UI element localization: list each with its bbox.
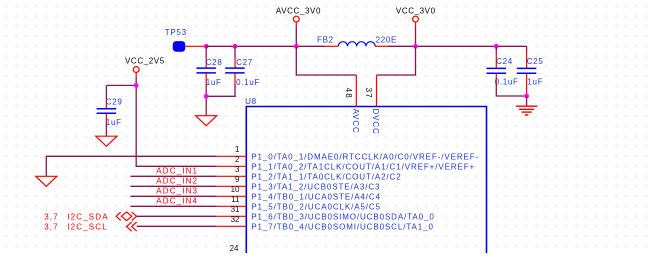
- svg-text:48: 48: [344, 88, 353, 99]
- svg-text:ADC_IN4: ADC_IN4: [156, 197, 198, 206]
- junction C24/C25 bottom: [524, 94, 529, 99]
- svg-text:U8: U8: [245, 97, 257, 106]
- pin 31: [217, 215, 247, 217]
- svg-text:3,7: 3,7: [44, 213, 59, 222]
- pin 1: [217, 155, 247, 157]
- svg-text:AVCC_3V0: AVCC_3V0: [276, 7, 321, 16]
- capacitor C28: [196, 46, 216, 115]
- pin 3: [217, 175, 247, 177]
- svg-text:I2C_SCL: I2C_SCL: [67, 223, 108, 232]
- svg-text:37: 37: [364, 88, 373, 99]
- junction VCC_2V5/C29: [134, 83, 139, 88]
- svg-text:24: 24: [230, 244, 239, 253]
- svg-text:220E: 220E: [376, 36, 397, 45]
- svg-text:P1_2/TA1_1/TA0CLK/COUT/A2/C2: P1_2/TA1_1/TA0CLK/COUT/A2/C2: [251, 173, 401, 182]
- ground under C29: [96, 136, 117, 146]
- capacitor C25: [517, 46, 537, 96]
- power flag VCC_3V0: [396, 7, 436, 27]
- ground under pin 1 wire: [36, 176, 57, 186]
- svg-text:P1_6/TB0_3/UCB0SIMO/UCB0SDA/TA: P1_6/TB0_3/UCB0SIMO/UCB0SDA/TA0_0: [251, 213, 434, 222]
- pin 9: [217, 185, 247, 187]
- wire C29 branch: [106, 84, 136, 86]
- svg-text:1uF: 1uF: [206, 78, 222, 87]
- svg-text:P1_7/TB0_4/UCB0SOMI/UCB0SCL/TA: P1_7/TB0_4/UCB0SOMI/UCB0SCL/TA1_0: [251, 223, 434, 232]
- wire rail right segment: [388, 45, 527, 47]
- junction C28/C27 bottom: [204, 94, 209, 99]
- wire AVCC_3V0 drop: [295, 27, 297, 46]
- earth ground under C24/C25: [516, 106, 537, 115]
- svg-text:C27: C27: [236, 58, 253, 67]
- wire VCC to pin 37: [377, 46, 416, 75]
- svg-text:0.1uF: 0.1uF: [236, 78, 260, 87]
- svg-text:0.1uF: 0.1uF: [495, 78, 519, 87]
- ground under C28/C27: [196, 116, 217, 126]
- svg-text:P1_3/TA1_2/UCB0STE/A3/C3: P1_3/TA1_2/UCB0STE/A3/C3: [251, 183, 380, 192]
- power flag AVCC_3V0: [276, 7, 321, 27]
- svg-text:VCC_2V5: VCC_2V5: [125, 56, 165, 65]
- pin 32: [217, 225, 247, 227]
- svg-text:32: 32: [231, 215, 240, 224]
- wire I2C_SCL to pin 32: [137, 225, 217, 227]
- svg-text:ADC_IN3: ADC_IN3: [156, 187, 198, 196]
- junction VCC_3V0 rail: [413, 44, 418, 49]
- junction TP53/C28: [204, 44, 209, 49]
- svg-text:1uF: 1uF: [106, 118, 122, 127]
- svg-text:P1_1/TA0_2/TA1CLK/COUT/A1/C1/V: P1_1/TA0_2/TA1CLK/COUT/A1/C1/VREF+/VEREF…: [251, 163, 475, 172]
- pin 2: [217, 165, 247, 167]
- junction AVCC rail: [294, 44, 299, 49]
- svg-text:1: 1: [235, 145, 240, 154]
- svg-text:3: 3: [235, 165, 240, 174]
- svg-text:FB2: FB2: [317, 36, 334, 45]
- svg-text:C29: C29: [106, 97, 123, 106]
- node I2C_SCL xref 3,7: [44, 223, 108, 232]
- svg-text:1uF: 1uF: [527, 78, 543, 87]
- capacitor C27: [206, 46, 245, 96]
- svg-text:AVCC: AVCC: [351, 109, 360, 134]
- wire ADC_IN4: [130, 205, 216, 207]
- IC U8 outline: [246, 107, 486, 254]
- svg-text:TP53: TP53: [165, 28, 187, 37]
- wire earth stub: [526, 96, 528, 106]
- ferrite bead FB2: [317, 36, 388, 47]
- wire pin 1 to ground: [46, 156, 216, 176]
- pin 37 DVCC: [376, 75, 378, 107]
- wire rail left segment: [206, 45, 325, 47]
- wire ADC_IN1: [130, 175, 216, 177]
- capacitor C29: [97, 85, 117, 136]
- junction C24 top: [494, 44, 499, 49]
- svg-text:P1_5/TB0_2/UCA0CLK/A5/C5: P1_5/TB0_2/UCA0CLK/A5/C5: [251, 203, 381, 212]
- power flag VCC_2V5: [125, 56, 165, 77]
- wire I2C_SDA to pin 31: [137, 215, 217, 217]
- wire ADC_IN2: [130, 185, 216, 187]
- svg-text:I2C_SDA: I2C_SDA: [67, 213, 108, 222]
- wire AVCC to pin 48: [296, 46, 356, 75]
- wire ADC_IN3: [130, 195, 216, 197]
- junction C27 top: [233, 44, 238, 49]
- svg-text:C24: C24: [496, 57, 513, 66]
- svg-text:P1_0/TA0_1/DMAE0/RTCCLK/A0/C0/: P1_0/TA0_1/DMAE0/RTCCLK/A0/C0/VREF-/VERE…: [251, 153, 479, 162]
- pin 10: [217, 195, 247, 197]
- svg-text:P1_4/TB0_1/UCA0STE/A4/C4: P1_4/TB0_1/UCA0STE/A4/C4: [251, 193, 381, 202]
- svg-text:C28: C28: [206, 58, 223, 67]
- svg-text:DVCC: DVCC: [371, 109, 380, 135]
- svg-text:9: 9: [235, 175, 240, 184]
- svg-text:11: 11: [231, 195, 240, 204]
- svg-text:10: 10: [231, 185, 240, 194]
- pin 11: [217, 205, 247, 207]
- svg-text:31: 31: [231, 205, 240, 214]
- svg-text:C25: C25: [527, 57, 544, 66]
- wire VCC_2V5 vertical to pin 2: [136, 78, 216, 167]
- off-page connector I2C_SDA: [116, 212, 136, 221]
- test point TP53: [165, 28, 206, 52]
- pin 48 AVCC: [355, 75, 357, 107]
- svg-text:2: 2: [235, 155, 240, 164]
- off-page connector I2C_SCL: [127, 222, 137, 231]
- wire VCC_3V0 drop: [415, 27, 417, 46]
- svg-text:ADC_IN2: ADC_IN2: [156, 177, 198, 186]
- svg-text:ADC_IN1: ADC_IN1: [156, 167, 198, 176]
- node I2C_SDA xref 3,7: [44, 213, 109, 222]
- capacitor C24: [487, 46, 527, 96]
- svg-text:VCC_3V0: VCC_3V0: [396, 7, 436, 16]
- svg-text:3,7: 3,7: [44, 223, 59, 232]
